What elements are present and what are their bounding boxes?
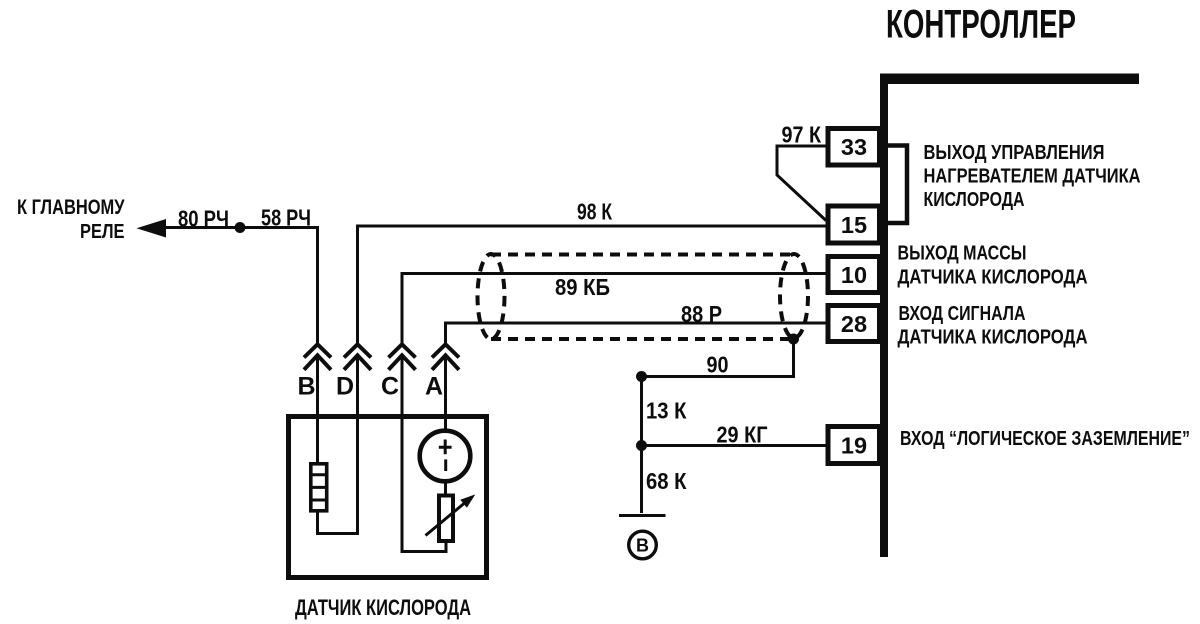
svg-text:10: 10 <box>841 262 867 288</box>
svg-text:КИСЛОРОДА: КИСЛОРОДА <box>924 188 1025 211</box>
svg-text:33: 33 <box>841 134 867 160</box>
svg-text:13 К: 13 К <box>646 398 687 424</box>
svg-text:ДАТЧИК КИСЛОРОДА: ДАТЧИК КИСЛОРОДА <box>295 595 471 620</box>
svg-text:ДАТЧИКА КИСЛОРОДА: ДАТЧИКА КИСЛОРОДА <box>898 326 1088 349</box>
svg-text:ВЫХОД МАССЫ: ВЫХОД МАССЫ <box>898 242 1027 265</box>
svg-text:КОНТРОЛЛЕР: КОНТРОЛЛЕР <box>886 2 1076 46</box>
svg-text:58 РЧ: 58 РЧ <box>261 205 311 231</box>
svg-text:B: B <box>297 373 315 401</box>
svg-text:ВХОД СИГНАЛА: ВХОД СИГНАЛА <box>899 302 1026 325</box>
svg-text:15: 15 <box>841 212 867 238</box>
svg-text:D: D <box>336 373 354 401</box>
svg-text:ДАТЧИКА КИСЛОРОДА: ДАТЧИКА КИСЛОРОДА <box>898 266 1088 289</box>
svg-text:К ГЛАВНОМУ: К ГЛАВНОМУ <box>17 196 125 219</box>
svg-text:80 РЧ: 80 РЧ <box>178 206 229 232</box>
svg-text:68 К: 68 К <box>646 468 687 494</box>
svg-text:98 К: 98 К <box>577 199 613 225</box>
svg-text:90: 90 <box>707 352 729 378</box>
svg-text:НАГРЕВАТЕЛЕМ ДАТЧИКА: НАГРЕВАТЕЛЕМ ДАТЧИКА <box>924 165 1141 188</box>
svg-text:C: C <box>381 373 399 401</box>
svg-text:97 К: 97 К <box>782 122 822 148</box>
svg-text:РЕЛЕ: РЕЛЕ <box>80 221 125 243</box>
svg-text:В: В <box>636 536 649 556</box>
svg-text:19: 19 <box>841 433 867 459</box>
svg-text:89 КБ: 89 КБ <box>555 274 610 300</box>
svg-text:28: 28 <box>841 311 867 337</box>
svg-text:29 КГ: 29 КГ <box>717 422 768 448</box>
svg-text:A: A <box>425 373 443 401</box>
svg-text:ВХОД “ЛОГИЧЕСКОЕ ЗАЗЕМЛЕНИЕ”: ВХОД “ЛОГИЧЕСКОЕ ЗАЗЕМЛЕНИЕ” <box>900 427 1190 450</box>
svg-text:ВЫХОД УПРАВЛЕНИЯ: ВЫХОД УПРАВЛЕНИЯ <box>924 141 1105 164</box>
svg-text:88 Р: 88 Р <box>681 301 722 327</box>
